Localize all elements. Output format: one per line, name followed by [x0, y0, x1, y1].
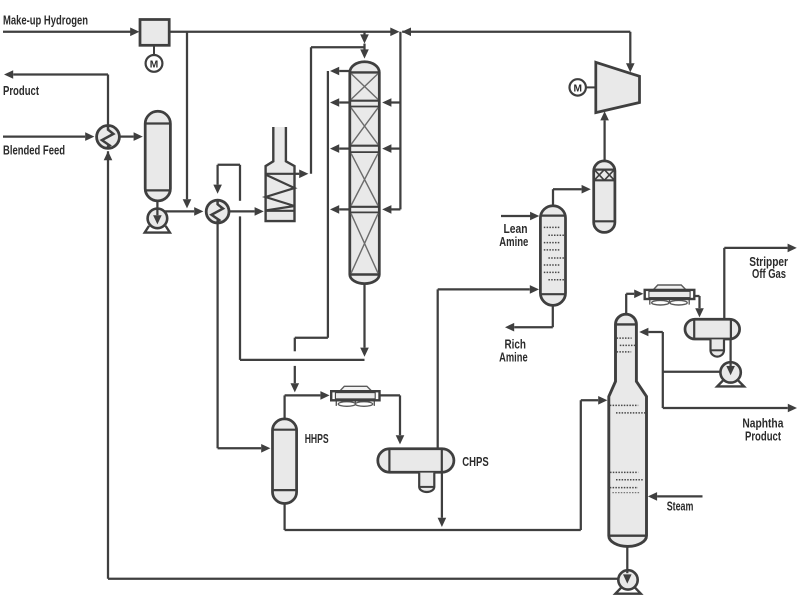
svg-text:Steam: Steam [667, 500, 694, 514]
wire reactor effluent down [360, 284, 369, 357]
wire quench header vertical [399, 32, 401, 210]
svg-text:Make-up Hydrogen: Make-up Hydrogen [3, 14, 88, 28]
wire hydrogen drop to reactor inlet tee [360, 32, 369, 59]
wire AC1 outlet to CHPS [380, 395, 405, 444]
motor M2 [570, 79, 596, 95]
amine absorber column C1 [540, 206, 565, 306]
wire reactor sidedraw collector [291, 67, 351, 393]
CHPS separator drum [378, 449, 454, 472]
EQUIPMENT [97, 20, 744, 594]
hydrotreating reactor R1 [350, 62, 380, 284]
wire steam inlet [648, 492, 703, 501]
wire recycle drop into compressor top [626, 32, 635, 73]
reflux drum D3 [685, 319, 740, 339]
pump P1 [145, 209, 170, 233]
feed surge drum D1 [145, 111, 170, 201]
reflux drum boot [711, 339, 725, 356]
exchanger E1 feed/product [97, 125, 120, 148]
wire pump P3 discharge [663, 332, 721, 408]
wire quench arrow 3 into reactor [382, 205, 400, 214]
svg-text:Blended Feed: Blended Feed [3, 144, 65, 158]
svg-text:Product: Product [3, 84, 40, 98]
wire stripper off gas [724, 244, 797, 319]
motor M1 [146, 45, 163, 72]
svg-text:Product: Product [745, 430, 782, 444]
make-up compressor box [140, 20, 169, 46]
svg-text:Lean: Lean [504, 222, 528, 236]
svg-text:HHPS: HHPS [305, 432, 329, 446]
wire reactor effluent return to E2 [213, 165, 364, 360]
product stripper column C2 [609, 314, 647, 546]
fired heater furnace F1 [266, 127, 295, 221]
wire exchanger E1 to feed drum [120, 132, 143, 141]
svg-text:Rich: Rich [504, 337, 526, 351]
svg-text:Naphtha: Naphtha [742, 417, 784, 431]
wire pump P1 discharge to exchanger E2 [160, 207, 203, 216]
wire stripper bottoms pump discharge long line [108, 578, 618, 580]
pump P3 reflux/naphtha [717, 362, 744, 386]
wire hydrogen drop to feed line [183, 32, 192, 209]
wire exchanger E2 to furnace [229, 207, 264, 216]
wire compressor discharge header to junction [169, 28, 630, 37]
svg-text:M: M [150, 60, 159, 71]
wire quench arrow 1 into reactor [382, 98, 400, 107]
svg-text:M: M [573, 83, 582, 94]
wire CHPS liquid to stripper feed line [438, 472, 447, 527]
exchanger E2 feed/effluent [206, 200, 229, 223]
svg-text:CHPS: CHPS [462, 455, 488, 469]
wire product line [4, 70, 108, 125]
wire bottoms riser through E1 [104, 151, 113, 579]
air cooler AC1 [331, 386, 379, 406]
wire stripper bottoms to pump P2 [623, 546, 632, 583]
wire quench arrow 2 into reactor [382, 144, 400, 153]
wire furnace outlet riser to reactor [295, 47, 365, 178]
wire HHPS overhead to air cooler AC1 [285, 391, 330, 419]
pump P2 stripper bottoms [615, 570, 640, 594]
wire CHPS vapor to amine absorber [438, 285, 539, 448]
wire amine absorber overhead to KO drum [553, 185, 591, 206]
wire blended feed line [3, 132, 94, 141]
wire reflux drum to pump P3 [726, 339, 735, 375]
wire make-up hydrogen header [3, 28, 139, 37]
wire KO drum to recycle compressor suction [600, 111, 609, 161]
wire rich amine outlet [505, 305, 553, 331]
svg-text:Amine: Amine [499, 235, 528, 249]
HHPS separator vessel [273, 419, 297, 504]
wire stripper overhead to air cooler AC2 [626, 290, 643, 315]
compressor suction KO drum D2 [594, 161, 615, 233]
wire HHPS bottoms to stripper [285, 396, 608, 530]
svg-text:Off Gas: Off Gas [752, 267, 786, 281]
CHPS boot [419, 473, 434, 492]
recycle gas compressor K1 [596, 62, 640, 112]
air cooler AC2 [645, 285, 695, 305]
wire reflux return to stripper [639, 328, 663, 337]
wire AC2 outlet to reflux drum [694, 296, 704, 317]
wire lean amine inlet [501, 212, 539, 221]
wire naphtha product line [663, 404, 797, 413]
svg-text:Amine: Amine [499, 351, 528, 365]
wire E2 shell outlet down to HHPS [218, 223, 271, 453]
wire feed drum to pump P1 [153, 201, 162, 225]
